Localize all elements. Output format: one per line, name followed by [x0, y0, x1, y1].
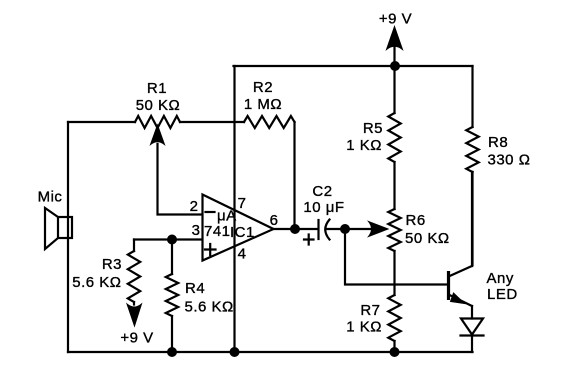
svg-text:R5: R5 — [363, 120, 383, 137]
svg-text:R1: R1 — [147, 80, 167, 97]
node : R4 bottom dot — [167, 347, 177, 357]
node : C2 output dot — [340, 224, 350, 234]
wire : op-amp output to C2 — [274, 228, 318, 230]
svg-text:R2: R2 — [253, 79, 273, 96]
wire : R7 bottom to rail — [393, 341, 395, 352]
resistor R1 50K (potentiometer, horizontal) — [135, 116, 180, 128]
resistor R7 1K (vertical) — [388, 295, 400, 341]
capacitor C2 : plus sign — [304, 235, 314, 245]
wire : R2 right end down to output node — [293, 122, 295, 229]
svg-text:1 KΩ: 1 KΩ — [346, 319, 382, 336]
wire : R6 to R7 — [393, 251, 395, 295]
transistor Q1 : collector wire up to R8 — [471, 172, 474, 266]
svg-text:R8: R8 — [488, 134, 508, 151]
svg-text:LED: LED — [487, 286, 518, 303]
svg-text:R4: R4 — [185, 280, 205, 297]
resistor R8 330ohm (vertical) — [466, 66, 478, 265]
node : R7 bottom dot — [390, 347, 400, 357]
resistor R5 1K (vertical) — [388, 66, 400, 209]
resistor R6 50K (vertical potentiometer) — [388, 209, 400, 251]
svg-text:50 KΩ: 50 KΩ — [136, 97, 181, 114]
svg-text:R3: R3 — [102, 256, 122, 273]
svg-text:μA: μA — [217, 208, 237, 225]
resistor R2 1M (horizontal) — [244, 116, 295, 128]
svg-text:330 Ω: 330 Ω — [488, 152, 531, 169]
wire : pin 3 input line — [134, 238, 202, 240]
svg-text:Any: Any — [487, 270, 514, 287]
wire : emitter to LED — [471, 306, 473, 319]
resistor R1 : wiper arrow to pin 2 — [151, 125, 203, 215]
op-amp U1 uA741 IC1 : triangle — [203, 195, 274, 261]
wire : LED to bottom rail — [471, 336, 473, 353]
op-amp : minus input marking — [206, 211, 215, 213]
svg-text:Mic: Mic — [38, 189, 63, 206]
wire : top +9V rail — [234, 65, 473, 67]
capacitor C2 10uF : plates — [319, 220, 346, 240]
svg-text:3: 3 — [192, 222, 201, 239]
svg-text:1 KΩ: 1 KΩ — [346, 137, 382, 154]
transistor Q1 : emitter with arrow — [449, 293, 473, 306]
svg-text:C2: C2 — [312, 183, 332, 200]
power +9V at R3 bottom : arrow down — [133, 302, 135, 305]
wire : left vertical (mic line) — [67, 122, 69, 352]
node : +9V rail junction dot — [390, 61, 400, 71]
wire : C2 node down and right to transistor base — [345, 229, 447, 285]
wire : R6 wiper arrow — [345, 222, 388, 237]
op-amp : plus input marking — [205, 244, 216, 255]
svg-text:4: 4 — [238, 246, 247, 263]
wire : input/feedback wire y=122 (R1 to R2) — [68, 121, 244, 123]
svg-text:IC1: IC1 — [230, 224, 255, 241]
transistor Q1 : collector — [449, 266, 473, 277]
svg-text:7: 7 — [238, 195, 247, 212]
resistor R3 5.6K (vertical) — [128, 240, 140, 303]
diode LED : triangle — [461, 319, 483, 335]
svg-text:R6: R6 — [406, 212, 426, 229]
svg-text:5.6 KΩ: 5.6 KΩ — [185, 299, 234, 316]
svg-text:+9 V: +9 V — [379, 11, 412, 28]
resistor R4 5.6K (vertical) — [166, 240, 178, 353]
svg-text:2: 2 — [190, 198, 199, 215]
svg-text:5.6 KΩ: 5.6 KΩ — [72, 274, 121, 291]
wire : bottom rail — [68, 351, 473, 353]
microphone Mic : speaker symbol — [45, 208, 72, 249]
node : pin4 line bottom dot — [230, 347, 240, 357]
svg-text:50 KΩ: 50 KΩ — [405, 230, 450, 247]
wire : pin7-to-pin4 supply line (vertical through op-amp) — [233, 66, 235, 352]
svg-text:+9 V: +9 V — [120, 330, 153, 347]
svg-text:1 MΩ: 1 MΩ — [244, 96, 282, 113]
node : output pin6 dot — [290, 224, 300, 234]
svg-text:10 μF: 10 μF — [303, 199, 344, 216]
diode LED : cathode bar — [461, 334, 484, 336]
svg-text:741: 741 — [204, 223, 231, 240]
power +9V : arrow symbol — [387, 27, 403, 67]
transistor Q1 : base bar — [447, 271, 450, 300]
svg-text:R7: R7 — [360, 302, 380, 319]
svg-text:6: 6 — [270, 212, 279, 229]
node : pin3/R4 junction dot — [167, 235, 177, 245]
